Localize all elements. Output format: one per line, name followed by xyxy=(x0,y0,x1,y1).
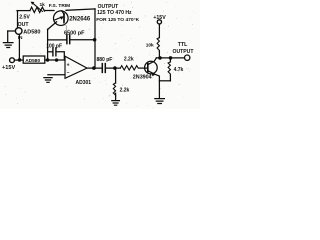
svg-text:125 TO 470 Hz: 125 TO 470 Hz xyxy=(97,10,132,16)
svg-text:F.S. TRIM: F.S. TRIM xyxy=(49,3,70,9)
svg-text:OUT: OUT xyxy=(18,22,30,28)
svg-text:100 pF: 100 pF xyxy=(46,43,62,49)
svg-text:IN: IN xyxy=(18,35,23,40)
svg-text:AD580: AD580 xyxy=(25,58,40,64)
svg-text:2.2k: 2.2k xyxy=(124,57,134,63)
svg-text:AD301: AD301 xyxy=(76,80,92,86)
svg-text:880 pF: 880 pF xyxy=(97,57,113,63)
svg-text:OUTPUT: OUTPUT xyxy=(98,4,119,10)
svg-text:2N3904: 2N3904 xyxy=(133,74,152,80)
svg-text:4.7k: 4.7k xyxy=(174,67,184,73)
svg-text:AD580: AD580 xyxy=(23,29,40,35)
svg-text:FOR 125 TO 470°K: FOR 125 TO 470°K xyxy=(96,17,139,23)
svg-text:2.2k: 2.2k xyxy=(120,87,130,93)
svg-text:2.5V: 2.5V xyxy=(19,15,30,21)
svg-text:TTL: TTL xyxy=(178,42,188,48)
svg-text:6500 pF: 6500 pF xyxy=(64,30,85,36)
svg-text:1k: 1k xyxy=(40,2,46,8)
svg-text:−: − xyxy=(67,70,70,76)
svg-text:2N2646: 2N2646 xyxy=(69,16,91,22)
svg-text:OUTPUT: OUTPUT xyxy=(173,49,195,55)
svg-text:+: + xyxy=(67,62,70,68)
svg-text:10k: 10k xyxy=(146,42,154,48)
svg-text:+15V: +15V xyxy=(153,15,166,21)
svg-text:+15V: +15V xyxy=(2,65,15,71)
